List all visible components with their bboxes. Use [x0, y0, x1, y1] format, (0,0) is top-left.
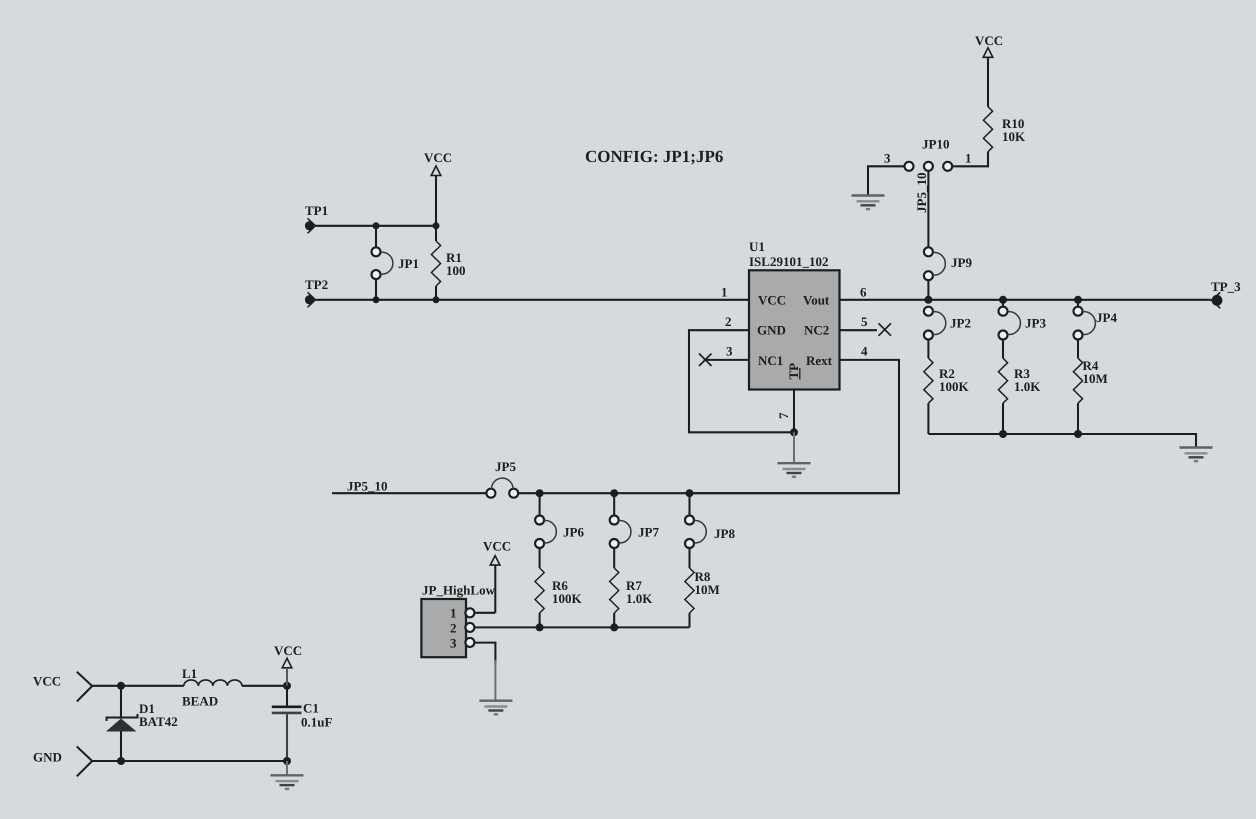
svg-text:100K: 100K: [552, 591, 583, 606]
resistor R1: [431, 226, 465, 300]
svg-text:10M: 10M: [1083, 371, 1108, 386]
ground (JP_HighLow pin 3): [479, 660, 512, 714]
wire pin 6 Vout to TP_3: [840, 299, 1212, 301]
inductor L1: [182, 666, 242, 709]
wire pin 5 stub: [840, 329, 878, 331]
jumper JP3: [999, 300, 1047, 358]
power VCC (above C1): [274, 643, 302, 686]
svg-text:JP3: JP3: [1025, 316, 1046, 331]
wire JP_HighLow pin3 to ground: [474, 643, 495, 664]
svg-text:7: 7: [776, 412, 791, 419]
junction (R6 bottom): [536, 623, 544, 631]
net label JP5_10: [347, 479, 387, 494]
wire VCC to L1: [92, 685, 184, 687]
resistor R2: [924, 358, 970, 434]
svg-text:3: 3: [450, 635, 457, 650]
svg-text:1: 1: [721, 285, 728, 300]
jumper JP5: [486, 459, 518, 498]
svg-text:1: 1: [965, 151, 972, 166]
svg-text:Rext: Rext: [806, 353, 833, 368]
svg-text:JP6: JP6: [563, 525, 584, 540]
junction (JP9/main wire): [924, 296, 932, 304]
svg-text:JP10: JP10: [922, 137, 949, 152]
svg-text:U1: U1: [749, 239, 765, 254]
resistor R10: [983, 107, 1026, 167]
wire JP_HighLow pin1 to VCC: [474, 612, 495, 614]
svg-text:JP9: JP9: [951, 255, 972, 270]
junction (C1 bottom): [283, 757, 291, 765]
junction (JP7 top): [610, 489, 618, 497]
op IC U1 ISL29101_102 body: [749, 239, 840, 390]
svg-text:6: 6: [860, 285, 867, 300]
jumper JP1: [372, 226, 419, 300]
ground (right resistor bank): [1180, 448, 1213, 462]
jumper JP7: [610, 493, 660, 568]
svg-text:100K: 100K: [939, 379, 970, 394]
svg-text:NC2: NC2: [804, 323, 829, 338]
ground (JP10 pin 3): [852, 196, 885, 210]
svg-text:3: 3: [726, 344, 733, 359]
ground (bottom-left): [271, 761, 304, 789]
junction (JP8 top): [686, 489, 694, 497]
power VCC (JP_HighLow pin 1): [483, 539, 511, 613]
connector GND input: [33, 747, 92, 777]
svg-text:10K: 10K: [1002, 129, 1026, 144]
header JP10: [884, 137, 972, 171]
junction (R3 bottom): [999, 430, 1007, 438]
wire resistor bottoms to ground: [928, 434, 1196, 448]
junction (D1 bottom): [117, 757, 125, 765]
svg-text:GND: GND: [33, 750, 62, 765]
testpoint TP_3: [1211, 279, 1241, 308]
svg-text:L1: L1: [182, 666, 197, 681]
junction (JP1 top / TP1 wire): [373, 222, 380, 229]
pin name TP (pin 7, rotated): [786, 363, 801, 380]
junction (JP1 bottom): [373, 296, 380, 303]
junction (JP6 top): [536, 489, 544, 497]
svg-text:JP2: JP2: [950, 316, 971, 331]
svg-text:GND: GND: [757, 323, 786, 338]
connector VCC input: [33, 672, 92, 702]
wire TP2 to U1 pin 1: [316, 299, 750, 301]
junction (R7 bottom): [610, 623, 618, 631]
svg-text:TP2: TP2: [305, 277, 328, 292]
wire JP10 pin3 to ground: [868, 166, 905, 195]
svg-text:10M: 10M: [695, 582, 720, 597]
svg-text:C1: C1: [303, 701, 319, 716]
jumper JP8: [685, 493, 735, 568]
svg-text:3: 3: [884, 151, 891, 166]
svg-text:5: 5: [861, 314, 868, 329]
junction (C1 top): [283, 682, 291, 690]
resistor R4: [1073, 358, 1107, 434]
resistor R6: [535, 568, 583, 627]
wire pin 7 stub: [793, 390, 795, 433]
wire JP10 pin2 down to JP9: [927, 171, 929, 248]
svg-text:1.0K: 1.0K: [626, 591, 653, 606]
svg-text:NC1: NC1: [758, 353, 783, 368]
wire TP1 to R1 top: [316, 225, 437, 227]
resistor R3: [998, 358, 1041, 434]
wire pin 4 Rext down to JP5 net: [694, 360, 899, 493]
svg-text:VCC: VCC: [758, 292, 786, 307]
svg-text:1: 1: [450, 606, 457, 621]
header JP_HighLow: [421, 583, 495, 658]
ground (under U1 pin 7): [778, 432, 811, 477]
wire GND run: [92, 760, 287, 762]
wire pin2 GND loop: [689, 330, 794, 432]
svg-text:TP_3: TP_3: [1211, 279, 1241, 294]
power VCC (above R10): [975, 33, 1003, 107]
svg-text:JP_HighLow: JP_HighLow: [422, 583, 496, 598]
svg-text:BAT42: BAT42: [139, 714, 178, 729]
svg-text:JP8: JP8: [714, 526, 735, 541]
svg-text:JP5_10: JP5_10: [914, 173, 929, 213]
junction (JP3 top): [999, 296, 1007, 304]
svg-text:2: 2: [450, 620, 457, 635]
jumper JP2: [924, 307, 971, 359]
jumper JP4: [1074, 300, 1118, 358]
diode D1 BAT42 (schottky): [106, 686, 178, 761]
junction (D1 anode top): [117, 682, 125, 690]
svg-text:JP5_10: JP5_10: [347, 479, 387, 494]
svg-text:1.0K: 1.0K: [1014, 379, 1041, 394]
junction (R1 bottom): [433, 296, 440, 303]
svg-text:VCC: VCC: [424, 150, 452, 165]
no-connect X (pin 3): [699, 354, 712, 367]
jumper JP9: [924, 247, 973, 299]
testpoint TP1: [305, 203, 328, 233]
svg-text:BEAD: BEAD: [182, 694, 218, 709]
svg-text:TP: TP: [786, 363, 801, 380]
svg-text:JP4: JP4: [1096, 310, 1117, 325]
svg-text:JP5: JP5: [495, 459, 516, 474]
svg-text:ISL29101_102: ISL29101_102: [749, 254, 828, 269]
svg-text:JP1: JP1: [398, 256, 419, 271]
wire resistor bottoms to JP_HighLow pin 2: [474, 626, 689, 628]
svg-text:100: 100: [446, 263, 466, 278]
svg-text:VCC: VCC: [483, 539, 511, 554]
svg-text:2: 2: [725, 314, 732, 329]
svg-text:CONFIG: JP1;JP6: CONFIG: JP1;JP6: [585, 147, 723, 166]
wire JP5 right run: [518, 492, 899, 494]
svg-text:4: 4: [861, 344, 868, 359]
no-connect X (pin 5): [879, 323, 892, 336]
testpoint TP2: [305, 277, 328, 307]
wire pin 3 stub: [704, 359, 749, 361]
resistor R8: [685, 568, 720, 627]
junction (R4 bottom): [1074, 430, 1082, 438]
wire JP10 pin1 to R10: [952, 152, 988, 167]
resistor R7: [610, 568, 654, 627]
wire L1 to C1: [242, 685, 287, 687]
svg-text:JP7: JP7: [638, 525, 659, 540]
power VCC (above R1): [424, 150, 452, 226]
jumper JP6: [535, 493, 584, 568]
junction (JP4 top): [1074, 296, 1082, 304]
svg-text:0.1uF: 0.1uF: [301, 715, 332, 730]
junction (pin7 / gnd): [790, 428, 798, 436]
svg-text:VCC: VCC: [33, 674, 61, 689]
svg-text:Vout: Vout: [803, 292, 830, 307]
junction (R1 top): [433, 222, 440, 229]
wire JP5 left: [332, 492, 486, 494]
svg-text:VCC: VCC: [975, 33, 1003, 48]
svg-text:TP1: TP1: [305, 203, 328, 218]
svg-text:VCC: VCC: [274, 643, 302, 658]
capacitor C1: [272, 686, 333, 761]
